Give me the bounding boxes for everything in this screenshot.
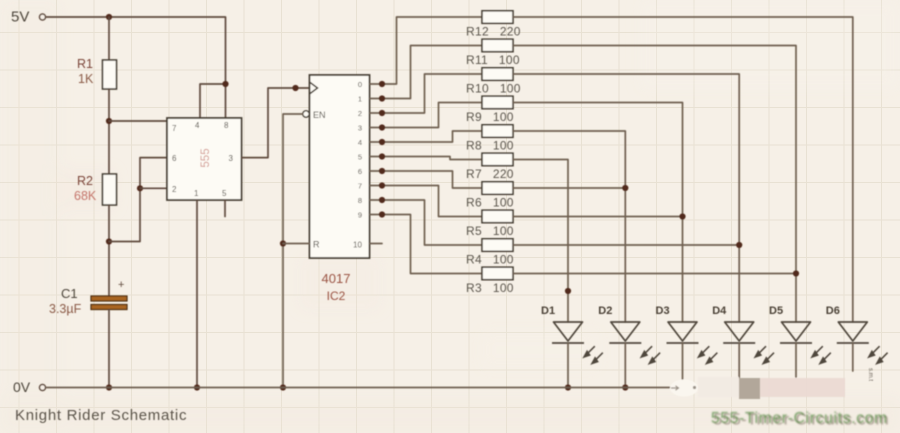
- junction R6 column: [622, 185, 628, 191]
- svg-text:D6: D6: [826, 305, 840, 317]
- svg-text:1: 1: [358, 95, 362, 104]
- svg-text:R6 100: R6 100: [466, 196, 514, 210]
- svg-text:1K: 1K: [78, 72, 94, 86]
- LED D1 light arrows: [584, 346, 603, 363]
- junction output 0: [379, 81, 385, 87]
- junction output 5: [379, 153, 385, 159]
- wire R11 to LED column: [513, 46, 796, 323]
- junction on clock wire: [292, 85, 298, 91]
- svg-text:R5 100: R5 100: [466, 224, 514, 238]
- junction D1 column: [565, 288, 571, 294]
- LED D2 cathode bar: [609, 342, 641, 344]
- 5V terminal pin: [40, 14, 46, 20]
- stub 555 pin5: [224, 200, 226, 217]
- svg-text:0V: 0V: [13, 379, 31, 395]
- wire reset pin: [283, 243, 310, 245]
- wire D1 cathode down: [567, 343, 569, 388]
- wire 555 out pin3 to 4017 clock: [242, 88, 310, 158]
- clock wedge: [310, 82, 318, 94]
- wire R10 to LED column: [513, 74, 739, 322]
- svg-text:3.3µF: 3.3µF: [49, 302, 82, 316]
- LED D5 triangle: [782, 322, 811, 341]
- svg-text:D1: D1: [541, 305, 555, 317]
- smudge gray box: [739, 378, 760, 399]
- svg-text:10: 10: [353, 241, 362, 250]
- svg-text:3: 3: [358, 124, 362, 133]
- wire EN to 0V: [283, 114, 303, 388]
- svg-text:R8 100: R8 100: [466, 139, 514, 153]
- LED D1 triangle: [554, 322, 583, 341]
- svg-text:5: 5: [222, 189, 227, 198]
- resistor R9: [482, 96, 513, 109]
- wire output 5 to R7: [370, 157, 483, 160]
- junction output 2: [379, 110, 385, 116]
- LED D3 cathode bar: [667, 342, 699, 344]
- svg-text:R1: R1: [77, 57, 93, 71]
- resistor R1: [103, 60, 117, 89]
- wire 0V rail: [47, 387, 671, 389]
- junction R2-C1-trigger node: [106, 238, 112, 244]
- svg-text:R7 220: R7 220: [466, 167, 514, 181]
- junction EN-0V: [280, 384, 286, 390]
- wire 555 pin1 to 0V: [196, 200, 198, 388]
- svg-text:R9 100: R9 100: [466, 110, 514, 124]
- svg-text:2: 2: [172, 185, 177, 194]
- wire R7 to LED column: [513, 160, 568, 323]
- wire output 6 to R6: [370, 171, 483, 188]
- svg-text:8: 8: [224, 121, 229, 130]
- svg-text:6: 6: [358, 167, 362, 176]
- wire R4 tee: [513, 244, 739, 246]
- wire output 4 to R8: [370, 131, 483, 142]
- wire output 2 to R10: [370, 74, 483, 113]
- resistor R10: [482, 68, 513, 81]
- wire output 8 to R4: [370, 200, 483, 245]
- svg-text:R11 100: R11 100: [466, 53, 520, 67]
- junction output 3: [379, 124, 385, 130]
- resistor R8: [482, 125, 513, 138]
- junction R4 column: [736, 242, 742, 248]
- svg-text:s.m.t: s.m.t: [867, 368, 873, 381]
- LED D4 cathode bar: [723, 342, 755, 344]
- junction D1-0V: [565, 384, 571, 390]
- LED D2 triangle: [611, 322, 640, 341]
- counter IC2 4017 body: [310, 75, 370, 258]
- junction output 7: [379, 182, 385, 188]
- wire D2 cathode down: [624, 343, 626, 388]
- svg-text:D3: D3: [656, 305, 670, 317]
- wire R12 to LED column: [513, 17, 853, 322]
- junction output 6: [379, 168, 385, 174]
- svg-text:0: 0: [358, 80, 362, 89]
- wire R6 tee: [513, 187, 625, 189]
- svg-text:R4 100: R4 100: [466, 253, 514, 267]
- junction pin1-0V: [194, 384, 200, 390]
- resistor R4: [482, 239, 513, 252]
- svg-text:6: 6: [172, 154, 177, 163]
- junction C1-0V: [106, 384, 112, 390]
- wire 5V down to R1: [108, 17, 110, 60]
- wire R5 tee: [513, 216, 683, 218]
- svg-text:R: R: [313, 240, 320, 250]
- resistor R5: [482, 210, 513, 223]
- svg-text:555-Timer-Circuits.com: 555-Timer-Circuits.com: [711, 410, 887, 427]
- LED D4 light arrows: [755, 346, 774, 363]
- junction R5 column: [679, 213, 685, 219]
- svg-text:9: 9: [358, 211, 362, 220]
- wire output 7 to R5: [370, 186, 483, 217]
- LED D1 cathode bar: [552, 342, 584, 344]
- resistor R7: [482, 153, 513, 166]
- svg-text:68K: 68K: [74, 189, 97, 203]
- svg-text:D2: D2: [598, 305, 612, 317]
- svg-text:7: 7: [172, 124, 177, 133]
- wire R8 to LED column: [513, 131, 625, 322]
- svg-text:4017: 4017: [322, 271, 351, 286]
- svg-text:8: 8: [358, 196, 362, 205]
- wire D4 cathode down: [738, 343, 740, 378]
- svg-text:D5: D5: [769, 305, 783, 317]
- svg-text:C1: C1: [61, 286, 78, 301]
- LED D3 light arrows: [698, 346, 717, 363]
- resistor R3: [482, 267, 513, 280]
- wire output 1 to R11: [370, 46, 483, 99]
- svg-text:IC2: IC2: [327, 289, 346, 303]
- LED D5 light arrows: [812, 346, 831, 363]
- LED D4 triangle: [725, 322, 754, 341]
- LED D6 triangle: [838, 322, 867, 341]
- svg-text:5: 5: [358, 153, 362, 162]
- wire R3 tee: [513, 273, 796, 275]
- svg-text:R10 100: R10 100: [466, 82, 521, 96]
- svg-text:2: 2: [358, 109, 362, 118]
- junction R3 column: [793, 270, 799, 276]
- wire R9 to LED column: [513, 103, 683, 323]
- svg-text:555: 555: [200, 148, 212, 167]
- wire D6 cathode down: [852, 343, 854, 371]
- smudge white over D3 junction: [670, 380, 698, 397]
- junction output 4: [379, 139, 385, 145]
- wire 5V rail to IC1 supply: [47, 17, 226, 118]
- LED D5 cathode bar: [780, 342, 812, 344]
- svg-text:R12 220: R12 220: [466, 25, 521, 39]
- wire R1 to R2: [108, 89, 110, 174]
- smudge pale strip: [698, 377, 739, 397]
- junction pins 4-8 supply: [222, 81, 228, 87]
- LED D3 triangle: [668, 322, 697, 341]
- junction output 1: [379, 95, 385, 101]
- junction 5V / R1: [106, 14, 112, 20]
- svg-text:EN: EN: [313, 110, 326, 120]
- svg-text:R3 100: R3 100: [466, 281, 514, 295]
- svg-text:7: 7: [358, 182, 362, 191]
- LED D6 cathode bar: [837, 342, 869, 344]
- resistor R12: [482, 11, 513, 23]
- 0V terminal pin: [40, 385, 46, 391]
- svg-text:D4: D4: [712, 305, 727, 317]
- smudge pink box: [760, 378, 845, 397]
- svg-text:4: 4: [195, 121, 200, 130]
- wire to 555 pin 2: [140, 187, 167, 189]
- wire output 0 to R12: [370, 17, 483, 84]
- svg-text:1: 1: [194, 189, 199, 198]
- enable bubble: [303, 111, 309, 117]
- svg-text:3: 3: [229, 154, 234, 163]
- junction output 8: [379, 197, 385, 203]
- stub pin 10: [370, 243, 383, 245]
- svg-text:+: +: [118, 279, 124, 291]
- wire 5V branch to pin 4: [200, 84, 226, 118]
- LED D6 light arrows: [869, 346, 888, 363]
- wire output 3 to R9: [370, 103, 483, 128]
- svg-text:5V: 5V: [11, 9, 29, 26]
- resistor R2: [103, 174, 117, 205]
- LED D2 light arrows: [641, 346, 660, 363]
- junction output 9: [379, 211, 385, 217]
- wire R2 to C1: [108, 205, 110, 297]
- junction EN-R: [280, 240, 286, 246]
- wire C1 to 0V: [108, 310, 110, 388]
- junction R1-R2 / pin7: [106, 118, 112, 124]
- wire trigger node to pins 2-6: [109, 158, 167, 242]
- svg-text:Knight Rider Schematic: Knight Rider Schematic: [15, 407, 187, 424]
- wire output 9 to R3: [370, 215, 483, 274]
- junction D2-0V: [622, 384, 628, 390]
- resistor R11: [482, 39, 513, 52]
- capacitor C1: [91, 296, 127, 310]
- wire D3 cathode down: [682, 343, 684, 380]
- wire junction to 555 pin 7: [109, 120, 167, 122]
- wire D5 cathode down: [795, 343, 797, 377]
- op IC 555 body: [167, 118, 242, 200]
- svg-text:R2: R2: [77, 174, 93, 188]
- resistor R6: [482, 182, 513, 195]
- svg-text:4: 4: [358, 138, 362, 147]
- junction pins 2-6 tie: [137, 185, 143, 191]
